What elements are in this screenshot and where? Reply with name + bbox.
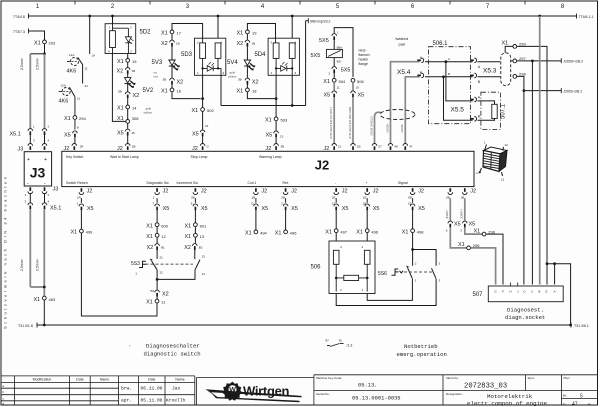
svg-text:X5: X5 [469, 222, 476, 228]
svg-text:+: + [44, 157, 47, 163]
svg-text:X5: X5 [117, 131, 124, 137]
connector X5 pin [266, 131, 284, 144]
svg-text:J2659+/2B.2: J2659+/2B.2 [563, 60, 583, 64]
wire A through 506.1 [425, 57, 473, 63]
svg-text:5V4: 5V4 [227, 60, 238, 66]
terminal X1:19 and feed to 5D4 [237, 24, 276, 40]
svg-text:Plan: Plan [564, 376, 570, 380]
svg-text:2B: 2B [281, 196, 285, 200]
svg-text:X2: X2 [162, 292, 169, 298]
svg-text:J2659-/2B.2: J2659-/2B.2 [563, 90, 582, 94]
terminal X1:499 [71, 229, 94, 235]
svg-text:30: 30 [339, 339, 343, 343]
connector X5 pin [332, 202, 349, 229]
svg-text:A: A [554, 289, 556, 293]
svg-text:X5.3: X5.3 [483, 68, 497, 75]
svg-text:.1: .1 [135, 272, 138, 276]
svg-text:X2: X2 [117, 69, 124, 75]
controller J3 box [24, 152, 51, 187]
svg-text:X1: X1 [185, 234, 192, 240]
relay contact 4K6 lower [59, 84, 81, 105]
terminal X1:498 [402, 229, 425, 264]
svg-text:507.1: 507.1 [501, 103, 507, 119]
connector X5 pin [408, 202, 425, 229]
wire 5D3 pin1 down to X1-502 [201, 75, 204, 107]
svg-text:11: 11 [337, 86, 340, 90]
terminal X1:15 [117, 59, 137, 68]
svg-text:15: 15 [408, 202, 412, 206]
svg-text:2B: 2B [446, 196, 450, 200]
svg-text:5S6: 5S6 [378, 271, 387, 277]
svg-text:StBrunp/23.2: StBrunp/23.2 [310, 20, 330, 24]
connector J2 pin ret [281, 188, 297, 203]
svg-text:3B: 3B [281, 145, 285, 149]
wire X1-499 U-loop to X1-11 [81, 233, 157, 316]
wire 5D4 pin1 down to X1-503 [275, 75, 278, 117]
connector X5.4 [397, 56, 424, 78]
svg-text:J1939-: J1939- [400, 124, 404, 133]
svg-text:47: 47 [572, 402, 578, 407]
LED 5V3 rot red [152, 60, 180, 82]
svg-text:X5: X5 [192, 132, 199, 138]
connector X5 pin [251, 202, 268, 231]
svg-text:2,5mm²: 2,5mm² [36, 57, 40, 70]
svg-text:308: 308 [132, 116, 139, 121]
svg-text:2,5mm²: 2,5mm² [20, 57, 24, 70]
svg-text:18: 18 [252, 89, 257, 94]
diagnostic plug pictorial [476, 141, 508, 182]
connector J2 pin diagnostic sw [153, 188, 169, 203]
svg-text:05.13.: 05.13. [358, 383, 377, 389]
svg-text:X1: X1 [146, 234, 153, 240]
terminal X1:483 [34, 296, 56, 325]
wire X1-18 to 5D4 leg node [247, 92, 275, 99]
connector J2 pin jd987- [445, 188, 452, 220]
svg-text:499: 499 [86, 230, 93, 235]
terminal X1:600 [146, 223, 169, 234]
terminal X1:297 to J2659+ [511, 56, 583, 285]
svg-text:Heiz-: Heiz- [359, 49, 368, 53]
svg-text:2B: 2B [132, 145, 136, 149]
connector X5 pin [117, 129, 135, 143]
svg-text:X5: X5 [163, 206, 170, 212]
svg-text:22: 22 [160, 271, 164, 275]
svg-text:1B: 1B [357, 145, 361, 149]
resistor-diode module 5D2 [105, 16, 151, 54]
svg-text:X1: X1 [265, 118, 272, 124]
connector J3 bottom pins [25, 187, 59, 198]
svg-text:X2: X2 [133, 93, 140, 99]
connector J2 pin jd987+ [460, 188, 476, 220]
connector J3 header pins [18, 144, 47, 153]
svg-text:X5: X5 [342, 206, 349, 212]
J2 bottom pin labels inside [66, 181, 408, 185]
svg-text:294: 294 [79, 116, 86, 121]
svg-text:X5.4: X5.4 [397, 69, 411, 76]
svg-text:Ret.: Ret. [283, 181, 289, 185]
terminal X1:294 [64, 116, 86, 130]
heater flange 5X5 circuit [334, 28, 353, 77]
svg-text:J3: J3 [18, 147, 24, 153]
svg-text:B2: B2 [151, 289, 155, 293]
svg-text:X1: X1 [185, 223, 192, 229]
wire bridge [334, 28, 353, 77]
connector X5 pin htr return [348, 91, 364, 144]
svg-text:12: 12 [501, 178, 505, 182]
svg-text:BS-: BS- [337, 60, 342, 64]
connector J2 pin stop lamp [192, 144, 210, 153]
svg-text:5D2: 5D2 [140, 30, 152, 36]
wire stub 1A from bus [90, 16, 95, 58]
svg-text:87: 87 [326, 339, 330, 343]
svg-text:494: 494 [260, 231, 267, 236]
svg-text:12: 12 [505, 143, 509, 147]
svg-text:X1: X1 [323, 79, 330, 85]
svg-text:X5: X5 [324, 93, 331, 99]
svg-text:483: 483 [49, 297, 56, 302]
net T31.3 bottom ground bus [18, 323, 589, 329]
terminal X1:298 to J2659- [513, 71, 582, 284]
terminal X1:506 [351, 78, 364, 90]
svg-text:flansch: flansch [359, 53, 370, 57]
svg-text:X5: X5 [261, 206, 268, 212]
svg-text:Kroellh: Kroellh [166, 398, 186, 404]
svg-text:293: 293 [49, 41, 56, 46]
title block texts right [316, 376, 570, 396]
svg-text:yellow: yellow [144, 111, 153, 115]
svg-text:H: H [509, 289, 511, 293]
svg-text:Jax: Jax [172, 386, 181, 392]
svg-text:13: 13 [200, 234, 205, 239]
svg-text:X5.1: X5.1 [10, 132, 21, 138]
svg-text:X5: X5 [201, 206, 208, 212]
svg-text:X1: X1 [146, 300, 153, 306]
caption diagnostic switch [129, 343, 201, 358]
junction dots on 7T4 bus [88, 15, 541, 18]
svg-text:503: 503 [281, 118, 288, 123]
wire J1939 shield [369, 112, 380, 143]
svg-text:X1: X1 [237, 89, 244, 95]
connector X5.1 upper pins [10, 125, 50, 144]
connector X5 pin [153, 202, 170, 223]
terminal X1:502 [192, 108, 215, 130]
svg-text:1B: 1B [252, 42, 256, 46]
terminal X1:16 [161, 88, 182, 95]
connector X5.5 [451, 96, 481, 122]
switch 5S3 diagnostic switch [131, 246, 205, 281]
svg-text:B: B [448, 72, 450, 76]
connector J2 pin plus [363, 188, 379, 203]
svg-text:Key Switch: Key Switch [66, 155, 83, 159]
terminal X1:18 [237, 88, 258, 95]
svg-text:X1: X1 [275, 231, 282, 237]
svg-text:X5: X5 [266, 133, 273, 139]
node split to 2,5mm2 pair [30, 52, 46, 55]
potentiometer module 506 [311, 241, 376, 294]
svg-text:X5: X5 [454, 222, 461, 228]
connector J2 pin signal [408, 188, 424, 203]
net reference StBrunp/23.2 [306, 18, 331, 24]
wire 5D4 pin3 / StBrunp rail [221, 21, 306, 107]
svg-text:2072833_03: 2072833_03 [464, 383, 507, 391]
svg-text:diagnostic switch: diagnostic switch [144, 351, 201, 358]
harness box 506.1 [429, 41, 471, 124]
svg-text:506: 506 [357, 79, 364, 84]
svg-text:3B: 3B [163, 78, 167, 82]
connector X5 pin [192, 130, 205, 144]
svg-text:3B: 3B [238, 78, 242, 82]
svg-text:496: 496 [290, 231, 297, 236]
svg-text:1E: 1E [363, 196, 367, 200]
svg-text:J2: J2 [261, 188, 267, 194]
net 7T3 feed to X1-293 [13, 29, 45, 41]
svg-text:12: 12 [161, 234, 166, 239]
wire 506 pin3 to 5S6 contact2 [336, 279, 436, 306]
svg-text:2,5mm²: 2,5mm² [36, 258, 40, 271]
svg-text:Machine Key Code:: Machine Key Code: [316, 376, 342, 380]
LED 5V4 gelb yellow [227, 60, 255, 82]
diagnostic socket 507 [473, 283, 564, 302]
wire J1939- [400, 77, 420, 144]
svg-text:06.11.08: 06.11.08 [141, 386, 163, 392]
wire 2,5mm2 pair to X1-483 [20, 209, 46, 296]
wire B branch to X5.5 [444, 77, 473, 120]
svg-text:Diagnostic Sw: Diagnostic Sw [147, 181, 170, 185]
connector X5 pin [281, 202, 298, 231]
svg-text:Designation:: Designation: [446, 392, 463, 396]
connector X2 pin [245, 78, 259, 88]
svg-text:600: 600 [161, 223, 168, 228]
connector J2 pin htr output [324, 144, 342, 153]
svg-text:13: 13 [280, 135, 284, 139]
connector J2 pin warning lamp [266, 144, 285, 153]
svg-text:heater: heater [359, 58, 370, 62]
svg-text:Ident-No.:: Ident-No.: [446, 376, 459, 380]
wire 4K6 to X1-294 [74, 97, 76, 116]
svg-text:1B: 1B [176, 42, 180, 46]
svg-text:yellow: yellow [228, 75, 237, 79]
svg-text:X1: X1 [117, 116, 124, 122]
svg-text:X1: X1 [325, 229, 332, 235]
column numbers 1-8 [36, 4, 565, 10]
svg-text:Name: Name [175, 378, 184, 382]
svg-text:2B: 2B [191, 196, 195, 200]
svg-text:X1: X1 [71, 230, 78, 236]
svg-text:506.1: 506.1 [433, 41, 449, 47]
svg-text:flange: flange [359, 62, 369, 66]
terminal X1:293 [34, 40, 56, 54]
terminal X1:17 and feed to 5D3 [161, 24, 203, 40]
connector X5 pins jd987 [446, 221, 475, 233]
terminal X1:494 [245, 230, 268, 237]
title block [1, 375, 598, 405]
svg-text:502: 502 [207, 108, 214, 113]
svg-text:13: 13 [202, 255, 206, 259]
connector X2 pin [184, 244, 203, 251]
svg-text:X1: X1 [161, 31, 168, 37]
terminal X1:496 [275, 230, 298, 237]
svg-text:X2: X2 [177, 80, 184, 86]
svg-text:J2: J2 [315, 158, 329, 173]
svg-text:X5: X5 [87, 206, 94, 212]
wire A branch to X5.5 [446, 62, 473, 101]
terminal X1:296 lower [450, 227, 495, 284]
svg-text:Date: Date [148, 378, 155, 382]
svg-text:5V2: 5V2 [143, 88, 154, 94]
svg-text:J2: J2 [291, 188, 297, 194]
svg-text:1A: 1A [92, 54, 96, 58]
svg-text:05.11.08: 05.11.08 [141, 398, 163, 404]
svg-text:21: 21 [160, 256, 164, 260]
label twisted pair [396, 36, 408, 47]
svg-text:Increment Sw: Increment Sw [177, 181, 199, 185]
svg-text:/1.3: /1.3 [347, 344, 353, 348]
terminal X1:601 [185, 223, 208, 234]
svg-text:T31.3/6.1: T31.3/6.1 [574, 324, 589, 328]
svg-text:3B: 3B [118, 90, 122, 94]
connector J2 pin wait-to-start [117, 144, 135, 153]
svg-text:Motorelektrik: Motorelektrik [487, 393, 533, 400]
connector X2 pin [237, 40, 256, 60]
resistor-diode module 5D4 [255, 16, 300, 75]
terminal X1:497 [325, 229, 348, 251]
svg-text:Notbetrieb: Notbetrieb [404, 343, 438, 350]
svg-text:J1939 SHIELD: J1939 SHIELD [369, 115, 373, 136]
connector X5.1 lower pins [25, 193, 62, 212]
wire 5D2 diode leg down [127, 54, 129, 59]
svg-text:pair: pair [399, 42, 406, 47]
wire 7T4 drop to diag socket [539, 16, 541, 285]
svg-text:5: 5 [580, 394, 583, 400]
svg-text:X2: X2 [237, 41, 244, 47]
svg-text:Date: Date [76, 378, 83, 382]
svg-text:5X5: 5X5 [341, 68, 351, 74]
svg-text:5S3: 5S3 [131, 261, 140, 267]
svg-text:X2: X2 [161, 41, 168, 47]
svg-text:X5.5: X5.5 [451, 107, 465, 114]
svg-text:2E: 2E [332, 196, 336, 200]
svg-text:1B: 1B [132, 69, 136, 73]
svg-text:emerg.operation: emerg.operation [397, 351, 447, 358]
svg-text:12A: 12A [69, 53, 74, 57]
Wirtgen logo [206, 382, 302, 403]
caption emergency operation [397, 343, 447, 358]
svg-text:X1: X1 [117, 59, 124, 65]
connector J2 pin key switch [64, 144, 85, 153]
svg-text:17: 17 [177, 31, 182, 36]
label heater flange [359, 49, 370, 67]
title block texts left [33, 378, 185, 382]
svg-text:J2: J2 [201, 188, 207, 194]
connector X2 pin [161, 40, 180, 60]
svg-text:2,5mm²: 2,5mm² [20, 258, 24, 271]
svg-text:1B: 1B [252, 196, 256, 200]
svg-text:497: 497 [340, 229, 347, 234]
connector J2 pin coil.1 [252, 188, 268, 203]
svg-text:JD987-: JD987- [445, 209, 449, 219]
svg-text:5D4: 5D4 [255, 52, 267, 58]
svg-text:X1: X1 [237, 31, 244, 37]
svg-text:Spot:: Spot: [528, 376, 535, 380]
svg-text:Diagnosest.: Diagnosest. [507, 307, 544, 314]
wire net to socket pin A and ground [546, 262, 572, 326]
svg-text:496: 496 [371, 229, 378, 234]
svg-text:X2: X2 [184, 245, 191, 251]
wire 506 pin1 to 5S6 contact1 [367, 279, 412, 300]
svg-text:299: 299 [519, 41, 526, 46]
connector 5X5 pin 2 [329, 67, 351, 79]
svg-text:504: 504 [339, 79, 346, 84]
svg-text:X2: X2 [147, 245, 154, 251]
svg-text:J2: J2 [470, 188, 476, 194]
svg-text:X1: X1 [117, 106, 124, 112]
svg-text:Modification: Modification [33, 378, 52, 382]
svg-text:47: 47 [409, 145, 413, 149]
svg-text:19: 19 [252, 31, 257, 36]
terminal X1:296 upper [465, 227, 503, 284]
svg-text:05.13.0001-0035: 05.13.0001-0035 [352, 396, 401, 402]
svg-text:Diagnoseschalter: Diagnoseschalter [146, 343, 200, 350]
connector J2 pin minus [332, 188, 348, 203]
svg-text:X5: X5 [291, 206, 298, 212]
svg-text:12: 12 [338, 145, 342, 149]
connector X2 pin [117, 68, 136, 78]
svg-text:B: B [538, 289, 540, 293]
svg-text:J3: J3 [53, 187, 59, 193]
wire 2,5mm2 right [44, 54, 46, 129]
svg-text:Coil.1: Coil.1 [248, 181, 257, 185]
svg-text:1B: 1B [461, 196, 465, 200]
J2 top pin labels inside [66, 155, 282, 159]
svg-text:6E: 6E [408, 196, 412, 200]
svg-text:Serial-No.:: Serial-No.: [316, 392, 330, 396]
svg-text:v.:: v.: [563, 402, 566, 406]
svg-text:red: red [154, 75, 159, 79]
svg-text:BB+: BB+ [337, 46, 343, 50]
controller J2 box [62, 151, 474, 186]
svg-text:24: 24 [85, 84, 89, 88]
svg-text:Switch Return: Switch Return [66, 181, 88, 185]
svg-text:X1: X1 [161, 89, 168, 95]
svg-text:electr.compon.of engine: electr.compon.of engine [467, 400, 548, 407]
svg-text:JD987+: JD987+ [460, 208, 464, 219]
svg-text:A: A [448, 57, 450, 61]
svg-text:X5.1: X5.1 [50, 206, 61, 212]
svg-text:J3: J3 [30, 165, 46, 181]
svg-text:X1: X1 [474, 228, 481, 234]
terminal X1:13 [185, 233, 205, 243]
svg-text:X5: X5 [373, 206, 380, 212]
svg-text:X5: X5 [358, 93, 365, 99]
svg-text:Warning Lamp: Warning Lamp [259, 155, 282, 159]
svg-text:297: 297 [519, 56, 526, 61]
terminal X1:299 [502, 41, 548, 263]
connector X5 pin (key switch wire) [64, 131, 77, 144]
svg-text:12A: 12A [61, 84, 66, 88]
connector X2 pin below 5S3 [151, 279, 169, 299]
terminal X1:503 [265, 117, 288, 131]
terminal X1:14 [117, 105, 153, 119]
svg-text:X1: X1 [64, 116, 71, 122]
svg-text:Stop Lamp: Stop Lamp [191, 155, 208, 159]
connector X2 pin [125, 92, 139, 105]
relay contact 4K6 upper [67, 53, 88, 75]
connector X5 pin [191, 202, 208, 223]
svg-text:11: 11 [77, 97, 80, 101]
terminating resistor 507.1 [478, 92, 507, 129]
terminal X1:12 [146, 233, 166, 243]
svg-text:T31.3/1.8: T31.3/1.8 [18, 324, 33, 328]
